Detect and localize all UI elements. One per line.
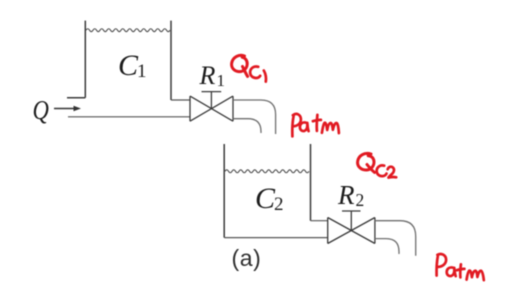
svg-text:C: C — [255, 182, 276, 215]
svg-text:1: 1 — [217, 71, 226, 90]
svg-text:2: 2 — [274, 194, 284, 215]
svg-text:2: 2 — [356, 190, 365, 210]
svg-text:1: 1 — [137, 61, 147, 82]
svg-text:R: R — [199, 61, 216, 90]
svg-text:C: C — [118, 49, 139, 82]
svg-text:(a): (a) — [232, 245, 262, 271]
svg-text:R: R — [337, 180, 355, 210]
svg-text:Q: Q — [33, 96, 49, 125]
